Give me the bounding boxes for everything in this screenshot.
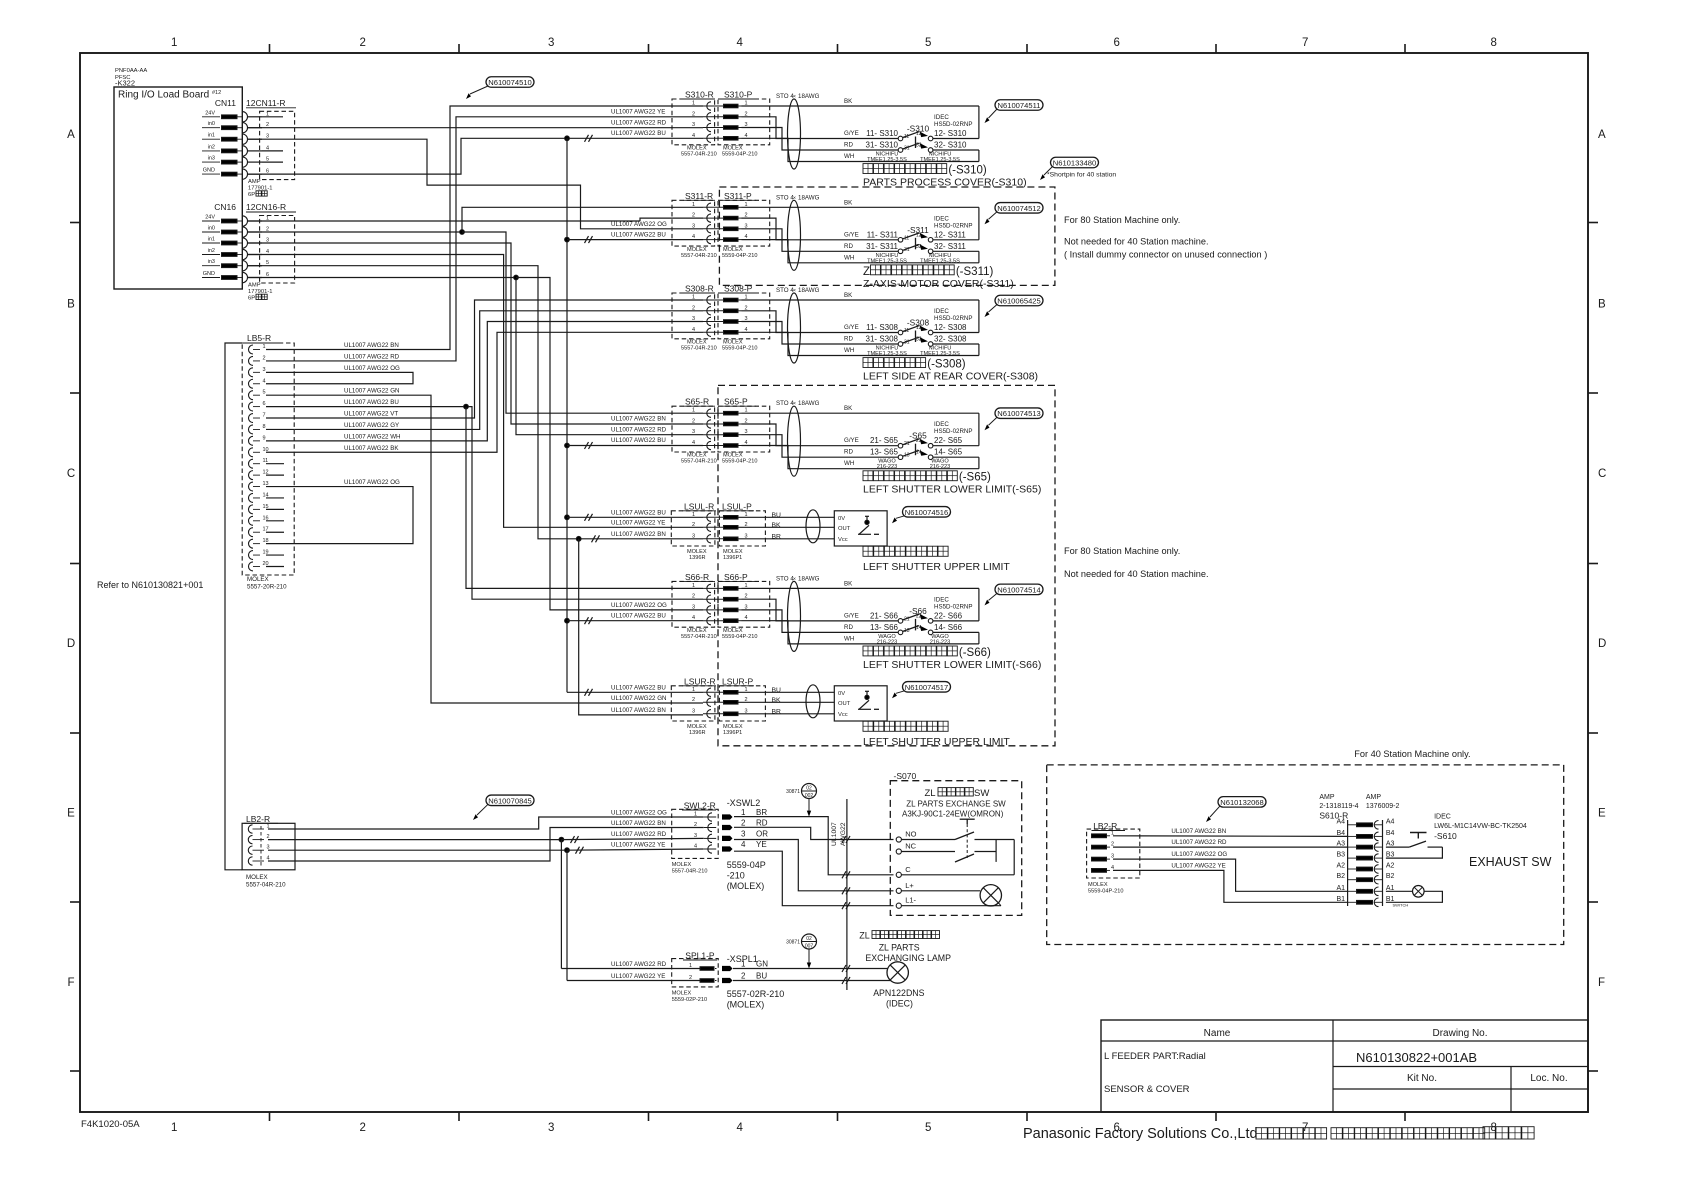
svg-text:12- S310: 12- S310 (934, 129, 967, 138)
svg-text:007: 007 (805, 944, 814, 950)
svg-text:-XSWL2: -XSWL2 (727, 798, 761, 808)
svg-text:Z-AXIS-MOTOR COVER(-S311): Z-AXIS-MOTOR COVER(-S311) (863, 278, 1014, 290)
svg-text:ZL PARTS EXCHANGE SW: ZL PARTS EXCHANGE SW (906, 800, 1006, 809)
svg-text:002: 002 (805, 793, 814, 799)
svg-text:31: 31 (904, 340, 910, 346)
svg-text:BR: BR (772, 708, 782, 715)
svg-text:(-S310): (-S310) (948, 165, 987, 177)
svg-text:UL1007 AWG22 RD: UL1007 AWG22 RD (344, 353, 400, 360)
svg-text:N610074511: N610074511 (998, 101, 1041, 110)
svg-text:02: 02 (806, 936, 812, 942)
svg-text:5557-04R-210: 5557-04R-210 (681, 459, 717, 465)
svg-text:L FEEDER PART:Radial: L FEEDER PART:Radial (1104, 1051, 1206, 1062)
svg-text:3: 3 (692, 708, 695, 714)
svg-text:21- S65: 21- S65 (870, 436, 899, 445)
svg-text:14: 14 (916, 625, 922, 631)
svg-text:5557-04R-210: 5557-04R-210 (246, 882, 286, 889)
svg-text:A: A (1598, 129, 1606, 141)
svg-text:5557-04R-210: 5557-04R-210 (681, 634, 717, 640)
svg-text:D: D (1598, 638, 1606, 650)
svg-text:1: 1 (689, 963, 692, 969)
svg-text:18AWG: 18AWG (798, 194, 820, 201)
svg-text:21: 21 (904, 616, 910, 622)
svg-text:-K322: -K322 (115, 79, 135, 88)
svg-text:30871: 30871 (786, 940, 800, 946)
svg-text:1396R: 1396R (689, 730, 705, 736)
svg-text:12- S311: 12- S311 (934, 230, 966, 239)
svg-text:IDEC: IDEC (934, 308, 949, 315)
svg-text:NC: NC (905, 842, 916, 851)
svg-text:S66-R: S66-R (685, 572, 709, 582)
svg-text:Not needed for 40 Station mach: Not needed for 40 Station machine. (1064, 569, 1209, 579)
svg-text:32: 32 (916, 337, 922, 343)
svg-text:UL1007 AWG22 BU: UL1007 AWG22 BU (611, 612, 666, 619)
svg-text:3: 3 (548, 37, 554, 49)
svg-text:UL1007 AWG22 RD: UL1007 AWG22 RD (1171, 839, 1227, 846)
svg-text:RD: RD (844, 243, 853, 250)
svg-text:LEFT SHUTTER LOWER LIMIT(-S66): LEFT SHUTTER LOWER LIMIT(-S66) (863, 659, 1041, 671)
svg-text:UL1007 AWG22 GN: UL1007 AWG22 GN (344, 388, 399, 395)
svg-text:31- S310: 31- S310 (866, 141, 899, 150)
svg-text:N610070845: N610070845 (488, 796, 532, 805)
svg-text:UL1007 AWG22 BN: UL1007 AWG22 BN (611, 707, 666, 714)
svg-text:F: F (67, 977, 74, 989)
svg-text:B4: B4 (1336, 830, 1345, 837)
svg-text:WH: WH (844, 153, 854, 160)
svg-text:S66-P: S66-P (724, 572, 748, 582)
svg-text:SENSOR & COVER: SENSOR & COVER (1104, 1084, 1190, 1095)
svg-text:S310-R: S310-R (685, 90, 714, 100)
svg-text:7: 7 (263, 413, 266, 419)
svg-text:A2: A2 (1386, 863, 1395, 870)
svg-text:7: 7 (1302, 37, 1308, 49)
svg-text:A3: A3 (1336, 841, 1345, 848)
svg-text:TMEE1.25-3.5S: TMEE1.25-3.5S (867, 258, 907, 264)
svg-text:21: 21 (904, 441, 910, 447)
svg-text:2: 2 (741, 819, 746, 828)
svg-text:BR: BR (756, 808, 767, 817)
svg-text:13- S65: 13- S65 (870, 448, 899, 457)
svg-text:6: 6 (1114, 37, 1120, 49)
svg-text:S65-R: S65-R (685, 397, 709, 407)
svg-text:AMP: AMP (1319, 794, 1335, 801)
svg-text:MOLEX: MOLEX (1088, 882, 1108, 888)
svg-text:EXHAUST SW: EXHAUST SW (1469, 855, 1552, 869)
svg-text:216-223: 216-223 (930, 639, 951, 645)
svg-text:4: 4 (263, 378, 266, 384)
svg-text:UL1007 AWG22 OG: UL1007 AWG22 OG (611, 810, 667, 817)
svg-text:SWITCH: SWITCH (1393, 903, 1409, 908)
svg-text:UL1007 AWG22 RD: UL1007 AWG22 RD (611, 120, 667, 127)
svg-text:IDEC: IDEC (934, 215, 949, 222)
svg-text:RD: RD (844, 449, 853, 456)
svg-text:PNF0AA-AA: PNF0AA-AA (115, 68, 147, 74)
svg-text:BK: BK (844, 292, 853, 299)
svg-text:6P: 6P (248, 192, 255, 198)
svg-text:UL1007 AWG22 BN: UL1007 AWG22 BN (611, 820, 666, 827)
svg-text:1: 1 (741, 808, 746, 817)
svg-text:4: 4 (737, 37, 744, 49)
svg-text:BK: BK (772, 697, 782, 704)
svg-text:3: 3 (741, 829, 746, 838)
svg-text:11: 11 (904, 134, 909, 140)
svg-text:2: 2 (689, 975, 692, 981)
svg-text:N610133480: N610133480 (1053, 159, 1097, 168)
svg-text:UL1007 AWG22 YE: UL1007 AWG22 YE (611, 842, 665, 849)
svg-text:UL1007 AWG22 YE: UL1007 AWG22 YE (611, 519, 665, 526)
svg-text:IDEC: IDEC (934, 421, 949, 428)
svg-text:N610074513: N610074513 (997, 409, 1041, 418)
svg-text:216-223: 216-223 (877, 639, 898, 645)
svg-text:216-223: 216-223 (877, 464, 898, 470)
svg-text:in1: in1 (208, 237, 215, 243)
svg-text:(-S65): (-S65) (959, 472, 991, 484)
svg-text:GND: GND (203, 168, 215, 174)
svg-text:Loc. No.: Loc. No. (1530, 1073, 1567, 1084)
svg-text:G/YE: G/YE (844, 437, 859, 444)
svg-text:IDEC: IDEC (934, 114, 949, 121)
svg-text:LEFT SIDE AT REAR COVER(-S308): LEFT SIDE AT REAR COVER(-S308) (863, 371, 1038, 383)
svg-text:2: 2 (360, 1122, 366, 1134)
svg-text:BK: BK (844, 405, 853, 412)
svg-text:2: 2 (741, 972, 746, 981)
svg-text:11- S311: 11- S311 (867, 230, 899, 239)
svg-text:24V: 24V (205, 215, 215, 221)
svg-text:UL1007 AWG22 BN: UL1007 AWG22 BN (1171, 828, 1226, 835)
svg-text:22- S66: 22- S66 (934, 611, 963, 620)
svg-text:GND: GND (203, 271, 215, 277)
svg-text:5557-04R-210: 5557-04R-210 (681, 253, 717, 259)
svg-text:( Install dummy connector on u: ( Install dummy connector on unused conn… (1064, 250, 1267, 260)
svg-text:A1: A1 (1336, 885, 1345, 892)
svg-text:N610074510: N610074510 (488, 78, 532, 87)
svg-text:RD: RD (756, 819, 768, 828)
svg-text:APN122DNS: APN122DNS (873, 988, 924, 998)
svg-text:in1: in1 (208, 133, 215, 139)
svg-text:12- S308: 12- S308 (934, 323, 967, 332)
svg-text:5557-20R-210: 5557-20R-210 (247, 584, 287, 591)
svg-text:-S070: -S070 (894, 771, 917, 781)
svg-text:E: E (67, 807, 75, 819)
svg-text:2: 2 (692, 697, 695, 703)
svg-text:31: 31 (904, 146, 910, 152)
svg-text:UL1007 AWG22 RD: UL1007 AWG22 RD (611, 831, 667, 838)
svg-text:5559-04P-210: 5559-04P-210 (722, 253, 757, 259)
svg-text:5559-04P-210: 5559-04P-210 (1088, 889, 1123, 895)
svg-text:18AWG: 18AWG (798, 287, 820, 294)
svg-text:B: B (1598, 299, 1606, 311)
svg-text:1376009-2: 1376009-2 (1366, 803, 1400, 810)
svg-text:6P: 6P (248, 296, 255, 302)
svg-text:For 40 Station Machine only.: For 40 Station Machine only. (1354, 749, 1470, 759)
svg-text:LSUL-P: LSUL-P (722, 501, 752, 511)
svg-text:31- S311: 31- S311 (866, 242, 898, 251)
svg-text:6: 6 (263, 401, 266, 407)
svg-text:LSUL-R: LSUL-R (684, 501, 714, 511)
svg-text:1: 1 (263, 344, 266, 350)
svg-text:0V: 0V (838, 691, 845, 697)
svg-text:UL1007 AWG22 WH: UL1007 AWG22 WH (344, 433, 401, 440)
svg-text:MOLEX: MOLEX (246, 874, 268, 881)
svg-text:For 80 Station Machine only.: For 80 Station Machine only. (1064, 546, 1180, 556)
svg-text:UL1007: UL1007 (831, 822, 838, 846)
svg-text:18AWG: 18AWG (798, 93, 820, 100)
svg-text:31: 31 (904, 247, 910, 253)
svg-text:RD: RD (844, 142, 853, 149)
svg-text:A3KJ-90C1-24EW(OMRON): A3KJ-90C1-24EW(OMRON) (902, 810, 1004, 819)
svg-text:C: C (1598, 468, 1606, 480)
svg-text:32- S310: 32- S310 (934, 141, 967, 150)
svg-text:2-1318119-4: 2-1318119-4 (1319, 803, 1358, 810)
svg-text:5: 5 (925, 1122, 931, 1134)
svg-text:Kit No.: Kit No. (1407, 1073, 1437, 1084)
svg-text:18AWG: 18AWG (798, 400, 820, 407)
svg-text:14: 14 (916, 450, 922, 456)
svg-text:HS5D-02RNP: HS5D-02RNP (934, 222, 973, 229)
svg-text:TMEE1.25-3.5S: TMEE1.25-3.5S (867, 351, 907, 357)
svg-text:5: 5 (263, 390, 266, 396)
svg-text:(-S66): (-S66) (959, 647, 991, 659)
svg-text:0V: 0V (838, 516, 845, 522)
svg-text:AMP: AMP (248, 179, 261, 185)
svg-text:32: 32 (916, 143, 922, 149)
svg-text:5559-04P-210: 5559-04P-210 (722, 152, 757, 158)
svg-text:BR: BR (772, 533, 782, 540)
svg-text:5557-02R-210: 5557-02R-210 (727, 989, 785, 999)
svg-text:4: 4 (737, 1122, 744, 1134)
svg-text:N610065425: N610065425 (997, 297, 1041, 306)
svg-text:N610130822+001AB: N610130822+001AB (1356, 1050, 1477, 1065)
svg-text:Not needed for 40 Station mach: Not needed for 40 Station machine. (1064, 237, 1209, 247)
svg-text:GN: GN (756, 960, 768, 969)
svg-text:9: 9 (263, 435, 266, 441)
svg-text:E: E (1598, 807, 1606, 819)
svg-text:216-223: 216-223 (930, 464, 951, 470)
svg-text:S308-R: S308-R (685, 284, 714, 294)
svg-text:LEFT SHUTTER LOWER LIMIT(-S65): LEFT SHUTTER LOWER LIMIT(-S65) (863, 484, 1041, 496)
svg-text:12: 12 (916, 131, 922, 137)
svg-text:HS5D-02RNP: HS5D-02RNP (934, 121, 973, 128)
svg-text:HS5D-02RNP: HS5D-02RNP (934, 315, 973, 322)
svg-text:Vcc: Vcc (838, 537, 848, 543)
svg-text:11: 11 (904, 235, 909, 241)
svg-text:B3: B3 (1336, 852, 1345, 859)
svg-text:MOLEX: MOLEX (247, 576, 269, 583)
svg-text:UL1007 AWG22 BU: UL1007 AWG22 BU (611, 231, 666, 238)
svg-text:UL1007 AWG22 BN: UL1007 AWG22 BN (344, 342, 399, 349)
svg-text:N610074514: N610074514 (997, 585, 1041, 594)
svg-text:5559-04P-210: 5559-04P-210 (722, 459, 757, 465)
svg-text:5559-04P-210: 5559-04P-210 (722, 634, 757, 640)
svg-text:*Shortpin for 40 station: *Shortpin for 40 station (1047, 172, 1116, 179)
svg-text:1396R: 1396R (689, 555, 705, 561)
svg-text:1: 1 (171, 37, 177, 49)
svg-text:UL1007 AWG22 OG: UL1007 AWG22 OG (344, 365, 400, 372)
svg-text:Z: Z (863, 266, 870, 278)
svg-text:in3: in3 (208, 259, 215, 265)
svg-text:BK: BK (844, 199, 853, 206)
svg-text:AWG22: AWG22 (840, 822, 847, 846)
svg-text:Name: Name (1204, 1028, 1231, 1039)
svg-text:CN11: CN11 (215, 98, 236, 108)
svg-text:BU: BU (772, 687, 782, 694)
svg-text:BK: BK (844, 580, 853, 587)
svg-text:WH: WH (844, 254, 854, 261)
svg-text:D: D (67, 638, 75, 650)
svg-text:-210: -210 (727, 871, 745, 881)
svg-text:8: 8 (1491, 37, 1497, 49)
svg-text:UL1007 AWG22 VT: UL1007 AWG22 VT (344, 411, 398, 418)
svg-text:L1-: L1- (905, 896, 916, 905)
svg-text:32: 32 (916, 244, 922, 250)
svg-text:SW: SW (974, 788, 989, 799)
svg-text:G/YE: G/YE (844, 324, 859, 331)
svg-text:OUT: OUT (838, 526, 851, 532)
svg-text:ZL: ZL (925, 788, 936, 799)
svg-text:L+: L+ (905, 881, 914, 890)
svg-text:A: A (67, 129, 75, 141)
svg-text:LB5-R: LB5-R (247, 333, 271, 343)
svg-text:N610132068: N610132068 (1220, 798, 1264, 807)
svg-text:UL1007 AWG22 BU: UL1007 AWG22 BU (611, 509, 666, 516)
svg-text:UL1007 AWG22 OG: UL1007 AWG22 OG (344, 479, 400, 486)
svg-text:30871: 30871 (786, 789, 800, 795)
svg-text:UL1007 AWG22 BN: UL1007 AWG22 BN (611, 531, 666, 538)
svg-text:HS5D-02RNP: HS5D-02RNP (934, 428, 973, 435)
svg-text:Ring I/O Load Board: Ring I/O Load Board (118, 90, 209, 101)
svg-text:UL1007 AWG22 OG: UL1007 AWG22 OG (611, 221, 667, 228)
svg-text:NO: NO (905, 830, 916, 839)
svg-text:11- S310: 11- S310 (866, 129, 898, 138)
svg-text:WH: WH (844, 347, 854, 354)
svg-text:S311-P: S311-P (724, 191, 752, 201)
svg-text:UL1007 AWG22 BK: UL1007 AWG22 BK (344, 445, 399, 452)
svg-text:UL1007 AWG22 YE: UL1007 AWG22 YE (611, 973, 665, 980)
svg-text:S65-P: S65-P (724, 397, 748, 407)
svg-text:3: 3 (263, 367, 266, 373)
svg-text:LEFT SHUTTER UPPER LIMIT: LEFT SHUTTER UPPER LIMIT (863, 561, 1010, 573)
svg-text:UL1007 AWG22 GN: UL1007 AWG22 GN (611, 695, 666, 702)
svg-text:MOLEX: MOLEX (672, 862, 692, 868)
svg-text:in3: in3 (208, 156, 215, 162)
svg-text:OUT: OUT (838, 701, 851, 707)
svg-text:(IDEC): (IDEC) (886, 999, 913, 1009)
svg-text:5557-04R-210: 5557-04R-210 (681, 152, 717, 158)
svg-text:in2: in2 (208, 144, 215, 150)
svg-text:1396P1: 1396P1 (723, 555, 742, 561)
svg-text:11: 11 (904, 328, 909, 334)
svg-text:Panasonic Factory Solutions Co: Panasonic Factory Solutions Co.,Ltd (1023, 1126, 1258, 1142)
svg-text:32- S308: 32- S308 (934, 335, 967, 344)
svg-text:BU: BU (772, 512, 782, 519)
svg-text:UL1007 AWG22 GY: UL1007 AWG22 GY (344, 422, 399, 429)
svg-text:UL1007 AWG22 RD: UL1007 AWG22 RD (611, 961, 667, 968)
svg-text:For 80 Station Machine only.: For 80 Station Machine only. (1064, 215, 1180, 225)
svg-text:UL1007 AWG22 YE: UL1007 AWG22 YE (1171, 862, 1225, 869)
svg-text:5559-04P-210: 5559-04P-210 (722, 346, 757, 352)
svg-text:22- S65: 22- S65 (934, 436, 963, 445)
svg-text:ZL PARTS: ZL PARTS (879, 943, 920, 953)
svg-text:in0: in0 (208, 226, 215, 232)
svg-text:G/YE: G/YE (844, 130, 859, 137)
svg-text:Drawing No.: Drawing No. (1432, 1028, 1487, 1039)
svg-text:in2: in2 (208, 248, 215, 254)
svg-text:CN16: CN16 (214, 202, 236, 212)
svg-text:MOLEX: MOLEX (672, 991, 692, 997)
svg-text:UL1007 AWG22 BU: UL1007 AWG22 BU (611, 130, 666, 137)
svg-text:14- S66: 14- S66 (934, 623, 963, 632)
svg-text:BK: BK (772, 522, 782, 529)
svg-text:BU: BU (756, 972, 767, 981)
svg-text:(-S311): (-S311) (956, 266, 994, 278)
svg-text:1396P1: 1396P1 (723, 730, 742, 736)
svg-text:WH: WH (844, 460, 854, 467)
svg-text:B4: B4 (1386, 830, 1395, 837)
svg-text:4: 4 (741, 840, 746, 849)
svg-text:3: 3 (548, 1122, 554, 1134)
svg-text:EXCHANGING LAMP: EXCHANGING LAMP (865, 953, 951, 963)
svg-text:LB2-R: LB2-R (246, 814, 270, 824)
svg-text:02: 02 (806, 786, 812, 792)
svg-text:OR: OR (756, 829, 768, 838)
svg-text:N610074516: N610074516 (905, 508, 949, 517)
svg-text:1: 1 (171, 1122, 177, 1134)
svg-text:14- S65: 14- S65 (934, 448, 963, 457)
svg-text:5559-04P: 5559-04P (727, 860, 766, 870)
svg-text:F4K1020-05A: F4K1020-05A (81, 1119, 140, 1130)
svg-text:STO 4: STO 4 (776, 93, 794, 100)
svg-text:12CN16-R: 12CN16-R (246, 202, 286, 212)
svg-text:STO 4: STO 4 (776, 194, 794, 201)
svg-text:1: 1 (741, 960, 746, 969)
svg-text:HS5D-02RNP: HS5D-02RNP (934, 603, 973, 610)
svg-text:IDEC: IDEC (934, 596, 949, 603)
svg-text:A2: A2 (1336, 863, 1345, 870)
svg-text:LSUR-R: LSUR-R (684, 676, 716, 686)
svg-text:G/YE: G/YE (844, 612, 859, 619)
svg-text:A4: A4 (1386, 818, 1395, 825)
svg-text:22: 22 (916, 438, 922, 444)
svg-text:UL1007 AWG22 RD: UL1007 AWG22 RD (611, 427, 667, 434)
svg-text:LW6L-M1C14VW-BC-TK2504: LW6L-M1C14VW-BC-TK2504 (1434, 823, 1527, 830)
svg-text:Refer to N610130821+001: Refer to N610130821+001 (97, 580, 203, 590)
svg-text:-S610: -S610 (1434, 831, 1457, 841)
svg-text:21- S66: 21- S66 (870, 611, 899, 620)
svg-text:2: 2 (360, 37, 366, 49)
svg-text:N610074517: N610074517 (905, 683, 949, 692)
svg-text:TMEE1.25-3.5S: TMEE1.25-3.5S (920, 258, 960, 264)
svg-text:UL1007 AWG22 BN: UL1007 AWG22 BN (611, 416, 666, 423)
svg-text:UL1007 AWG22 BU: UL1007 AWG22 BU (611, 684, 666, 691)
svg-text:Vcc: Vcc (838, 712, 848, 718)
svg-text:N610074512: N610074512 (997, 204, 1041, 213)
svg-text:STO 4: STO 4 (776, 400, 794, 407)
svg-text:RD: RD (844, 624, 853, 631)
svg-text:5557-04R-210: 5557-04R-210 (672, 869, 708, 875)
svg-text:UL1007 AWG22 BU: UL1007 AWG22 BU (611, 437, 666, 444)
svg-text:13: 13 (904, 453, 910, 459)
svg-text:LSUR-P: LSUR-P (722, 676, 754, 686)
svg-text:AMP: AMP (1366, 794, 1382, 801)
svg-text:G/YE: G/YE (844, 231, 859, 238)
svg-text:8: 8 (263, 424, 266, 430)
svg-text:S310-P: S310-P (724, 90, 753, 100)
svg-text:STO 4: STO 4 (776, 575, 794, 582)
svg-text:11- S308: 11- S308 (866, 323, 898, 332)
svg-text:13: 13 (904, 628, 910, 634)
svg-text:12CN11-R: 12CN11-R (246, 98, 286, 108)
svg-text:(-S308): (-S308) (927, 359, 966, 371)
